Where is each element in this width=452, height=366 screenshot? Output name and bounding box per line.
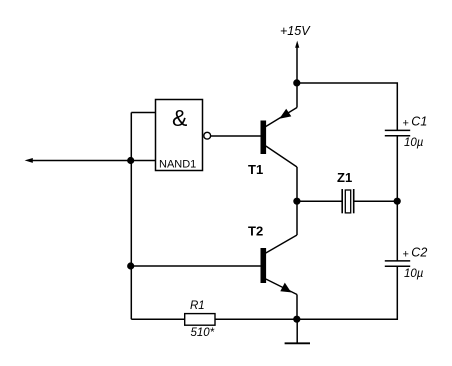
junction feedback/output node [127,157,134,164]
svg-text:&: & [172,105,187,131]
svg-text:R1: R1 [190,300,205,312]
resistor R1 [185,314,215,326]
wire T2 collector to crystal node [296,201,298,235]
capacitor C2 [385,261,410,266]
wire top rail [297,83,397,130]
wire C1 to crystal right node [396,136,398,202]
wire crystal right [354,200,398,202]
ground [285,319,310,343]
junction crystal right node [394,198,401,205]
junction T2 base node [127,262,134,269]
junction ground node [293,316,300,323]
wire NAND output to T1 base [211,135,261,137]
svg-text:C2: C2 [411,246,427,260]
gate NAND1 [156,100,211,171]
svg-text:10µ: 10µ [404,268,424,280]
transistor T1 [261,108,298,168]
wire bottom left to R1 [131,318,184,320]
svg-text:+15V: +15V [280,24,311,38]
svg-text:Z1: Z1 [337,170,352,185]
wire T2 base [131,265,260,267]
wire crystal left [297,200,342,202]
wire output line [30,160,155,162]
capacitor C1 [385,130,410,135]
junction +15V node [293,79,300,86]
svg-text:10µ: 10µ [404,137,424,149]
svg-text:+: + [403,118,409,130]
node output arrow [25,158,33,163]
svg-text:NAND1: NAND1 [159,159,196,171]
svg-text:T2: T2 [248,224,263,239]
transistor T2 [261,235,298,295]
svg-text:T1: T1 [248,162,263,177]
power +15V [295,41,299,83]
wire right rail bottom [297,266,397,319]
crystal Z1 [342,189,354,213]
svg-text:+: + [403,249,409,261]
wire crystal node to C2 [396,201,398,261]
wire R1 to ground node [215,318,297,320]
wire T2 emitter to ground node [296,295,298,320]
wire T1 collector to crystal node [296,167,298,201]
svg-text:C1: C1 [411,115,427,129]
svg-text:510*: 510* [191,327,215,339]
junction crystal left node [293,198,300,205]
wire left vertical bus [130,113,132,320]
wire T1 emitter to +15V node [296,83,298,108]
wire NAND top input [131,112,155,114]
